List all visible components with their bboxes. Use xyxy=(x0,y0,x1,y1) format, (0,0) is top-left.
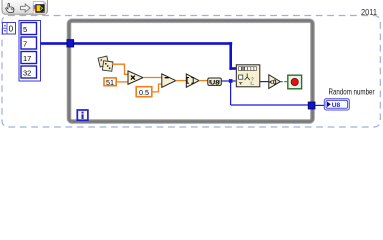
constant 0.5 xyxy=(136,87,152,98)
array element 7 xyxy=(21,37,37,49)
array element 32 xyxy=(21,66,37,78)
left tunnel xyxy=(67,40,74,47)
array wire into search xyxy=(229,67,236,70)
wire 0.5 to subtract xyxy=(152,84,162,92)
svg-text:2011: 2011 xyxy=(361,8,377,17)
wire U8 to junction and search element input xyxy=(221,80,236,82)
VI icon xyxy=(33,2,46,14)
wire multiply to subtract xyxy=(143,77,162,79)
svg-text:5: 5 xyxy=(23,25,27,34)
array index box xyxy=(3,23,16,35)
wire tunnel to indicator xyxy=(315,104,325,106)
array element 17 xyxy=(21,52,37,64)
arrow icon xyxy=(21,4,31,12)
svg-text:51: 51 xyxy=(106,78,114,87)
constant 51 xyxy=(104,78,116,87)
array wire horizontal xyxy=(41,42,233,45)
array element 5 xyxy=(21,23,37,35)
svg-text:7: 7 xyxy=(23,39,27,48)
junction dot xyxy=(229,79,233,83)
wire dice to multiply xyxy=(112,64,128,74)
wire bottom rail to tunnel xyxy=(231,104,309,106)
wire subtract to round xyxy=(176,80,187,82)
while loop border xyxy=(69,21,313,122)
svg-text:32: 32 xyxy=(23,68,31,77)
array shell xyxy=(19,21,41,82)
iteration terminal i xyxy=(77,110,88,120)
svg-text:<0: <0 xyxy=(269,78,276,87)
wire 51 to multiply xyxy=(117,81,128,83)
dice random number function xyxy=(98,56,113,71)
svg-text:0.5: 0.5 xyxy=(139,88,149,97)
array wire vertical xyxy=(229,42,232,70)
toolbar button xyxy=(2,0,48,14)
wire junction down xyxy=(230,81,232,105)
svg-text:U8: U8 xyxy=(332,102,341,109)
wire round to U8 xyxy=(199,80,208,82)
subtract function xyxy=(162,74,176,87)
boolean wire to stop terminal xyxy=(280,81,287,83)
svg-text:U8: U8 xyxy=(210,79,220,86)
right tunnel xyxy=(308,102,315,109)
svg-text:Random number: Random number xyxy=(329,87,375,97)
snippet dashed border xyxy=(2,16,380,128)
hand icon xyxy=(6,3,14,12)
wire search to less-than-0 xyxy=(260,81,269,83)
svg-text:0: 0 xyxy=(9,25,14,34)
svg-text:17: 17 xyxy=(23,54,31,63)
round to nearest function xyxy=(186,74,199,87)
less than 0 function xyxy=(269,75,281,89)
loop condition stop terminal xyxy=(288,75,302,89)
to-U8 conversion xyxy=(208,78,222,86)
indicator terminal U8 xyxy=(324,99,349,110)
multiply function xyxy=(128,71,143,84)
search 1D array function xyxy=(236,65,259,87)
svg-text:i..: i.. xyxy=(251,81,255,87)
